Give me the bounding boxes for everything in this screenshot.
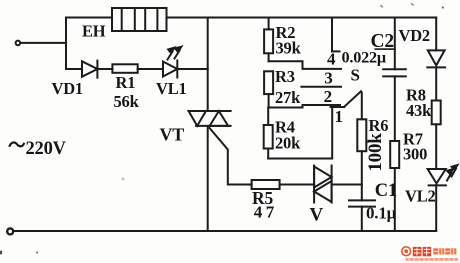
svg-text:VD1: VD1	[52, 79, 83, 98]
contact 3 bar	[301, 86, 341, 88]
wire	[207, 18, 209, 112]
wire	[66, 17, 112, 19]
diac V	[314, 166, 332, 203]
scan speck	[442, 6, 444, 8]
svg-text:0.1μ: 0.1μ	[366, 204, 397, 223]
svg-text:2: 2	[324, 87, 332, 106]
svg-text:300: 300	[403, 145, 427, 164]
resistor R6	[357, 119, 366, 184]
wire	[332, 184, 362, 186]
switch S wiper	[344, 91, 362, 119]
svg-text:39k: 39k	[276, 39, 302, 58]
watermark logo	[402, 247, 458, 261]
svg-text:VD2: VD2	[399, 26, 430, 45]
svg-text:27k: 27k	[275, 88, 301, 107]
capacitor C1	[349, 185, 375, 232]
resistor R4	[264, 108, 273, 159]
scan speck	[380, 5, 383, 8]
svg-text:4: 4	[327, 50, 336, 69]
resistor R8	[432, 101, 441, 170]
svg-text:47: 47	[254, 203, 278, 222]
scan speck	[36, 252, 38, 254]
svg-text:V: V	[310, 205, 324, 226]
diode VD2	[427, 18, 445, 101]
svg-text:R3: R3	[275, 67, 295, 86]
wire	[207, 126, 209, 231]
capacitor C2	[383, 18, 406, 142]
resistor R1	[112, 64, 163, 73]
weiku characters	[413, 247, 431, 256]
market text blocks	[433, 248, 456, 254]
LED VL1	[163, 46, 208, 78]
bottom wire	[13, 230, 436, 232]
wire (R4 to contact 1)	[268, 107, 332, 159]
svg-text:1: 1	[335, 107, 343, 126]
svg-text:0.022μ: 0.022μ	[342, 49, 386, 67]
contact 1 tick	[331, 106, 345, 108]
svg-text:VT: VT	[160, 125, 185, 145]
heater EH	[112, 8, 167, 31]
svg-text:220V: 220V	[26, 139, 67, 159]
resistor R7	[390, 141, 399, 231]
svg-text:VL2: VL2	[405, 187, 436, 206]
resistor R5	[252, 180, 315, 189]
resistor R3	[264, 71, 273, 107]
wire (gate)	[210, 128, 252, 185]
wire	[167, 17, 437, 19]
scan speck	[411, 3, 414, 6]
scan speck	[121, 177, 124, 180]
svg-text:3: 3	[324, 69, 332, 88]
svg-text:R1: R1	[116, 73, 136, 92]
svg-text:100k: 100k	[365, 133, 386, 172]
wire	[21, 42, 66, 44]
label ~220V	[9, 142, 24, 146]
triac VT	[189, 111, 231, 126]
resistor R2	[264, 18, 273, 62]
svg-text:56k: 56k	[114, 92, 140, 111]
diode VD1	[66, 61, 112, 78]
scan smear above C2 value	[375, 48, 395, 50]
svg-text:C1: C1	[375, 181, 397, 201]
switch pole from top wire	[332, 18, 340, 52]
svg-text:S: S	[351, 66, 360, 85]
edge artifact bottom-left	[0, 251, 2, 255]
LED VL2	[428, 164, 459, 231]
svg-text:VL1: VL1	[156, 79, 187, 98]
wire	[65, 18, 67, 70]
svg-text:43k: 43k	[406, 101, 432, 120]
svg-text:R6: R6	[369, 116, 389, 135]
terminal N (bottom)	[7, 228, 13, 234]
terminal L (top input)	[16, 41, 21, 46]
tiny slogan row	[406, 258, 459, 261]
wire (tap to contact 2)	[269, 105, 340, 108]
wire (tap to contact 4)	[269, 61, 341, 69]
svg-text:EH: EH	[82, 22, 106, 41]
svg-text:20k: 20k	[275, 134, 301, 153]
